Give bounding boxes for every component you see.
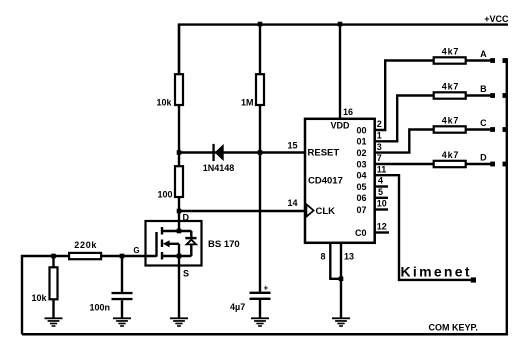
svg-text:BS 170: BS 170 [208, 239, 240, 250]
svg-text:3: 3 [377, 142, 382, 152]
svg-text:1M: 1M [241, 98, 254, 108]
svg-text:4: 4 [378, 176, 383, 186]
svg-text:4µ7: 4µ7 [230, 302, 245, 312]
svg-text:A: A [480, 49, 487, 59]
svg-text:+: + [263, 284, 268, 293]
svg-text:S: S [183, 268, 189, 278]
svg-text:11: 11 [377, 164, 387, 174]
svg-text:8: 8 [321, 252, 326, 262]
svg-text:1N4148: 1N4148 [203, 163, 235, 173]
svg-text:00: 00 [356, 125, 366, 135]
svg-text:100: 100 [157, 190, 172, 200]
svg-text:2: 2 [377, 119, 382, 129]
svg-text:13: 13 [344, 252, 354, 262]
svg-text:220k: 220k [74, 240, 97, 250]
svg-text:14: 14 [287, 198, 297, 208]
svg-text:RESET: RESET [308, 148, 340, 159]
svg-text:4k7: 4k7 [442, 150, 459, 160]
svg-text:03: 03 [356, 159, 366, 169]
svg-text:7: 7 [377, 153, 382, 163]
svg-text:+VCC: +VCC [484, 14, 509, 24]
svg-text:4k7: 4k7 [442, 82, 459, 92]
svg-text:G: G [133, 246, 139, 255]
svg-text:07: 07 [356, 205, 366, 215]
svg-text:10: 10 [377, 199, 387, 209]
svg-text:C0: C0 [355, 228, 367, 238]
svg-text:1: 1 [377, 131, 382, 141]
svg-text:10k: 10k [31, 293, 47, 303]
svg-text:10k: 10k [156, 98, 172, 108]
svg-text:4k7: 4k7 [442, 47, 459, 57]
svg-text:16: 16 [343, 107, 353, 117]
svg-text:5: 5 [378, 187, 383, 197]
svg-text:100n: 100n [89, 302, 110, 312]
svg-text:02: 02 [356, 148, 366, 158]
svg-text:CD4017: CD4017 [308, 175, 343, 186]
svg-text:C: C [480, 118, 487, 128]
svg-text:VDD: VDD [330, 120, 350, 130]
svg-text:05: 05 [356, 182, 366, 192]
svg-text:01: 01 [356, 137, 366, 147]
svg-text:B: B [480, 84, 487, 94]
svg-text:15: 15 [287, 141, 297, 151]
svg-text:D: D [480, 153, 487, 163]
svg-text:CLK: CLK [316, 206, 336, 217]
svg-text:4k7: 4k7 [442, 116, 459, 126]
svg-text:Kimenet: Kimenet [401, 264, 472, 280]
svg-text:D: D [183, 212, 190, 222]
svg-text:04: 04 [356, 171, 366, 181]
svg-text:COM KEYP.: COM KEYP. [429, 322, 478, 332]
svg-text:12: 12 [377, 222, 387, 232]
svg-text:06: 06 [356, 193, 366, 203]
